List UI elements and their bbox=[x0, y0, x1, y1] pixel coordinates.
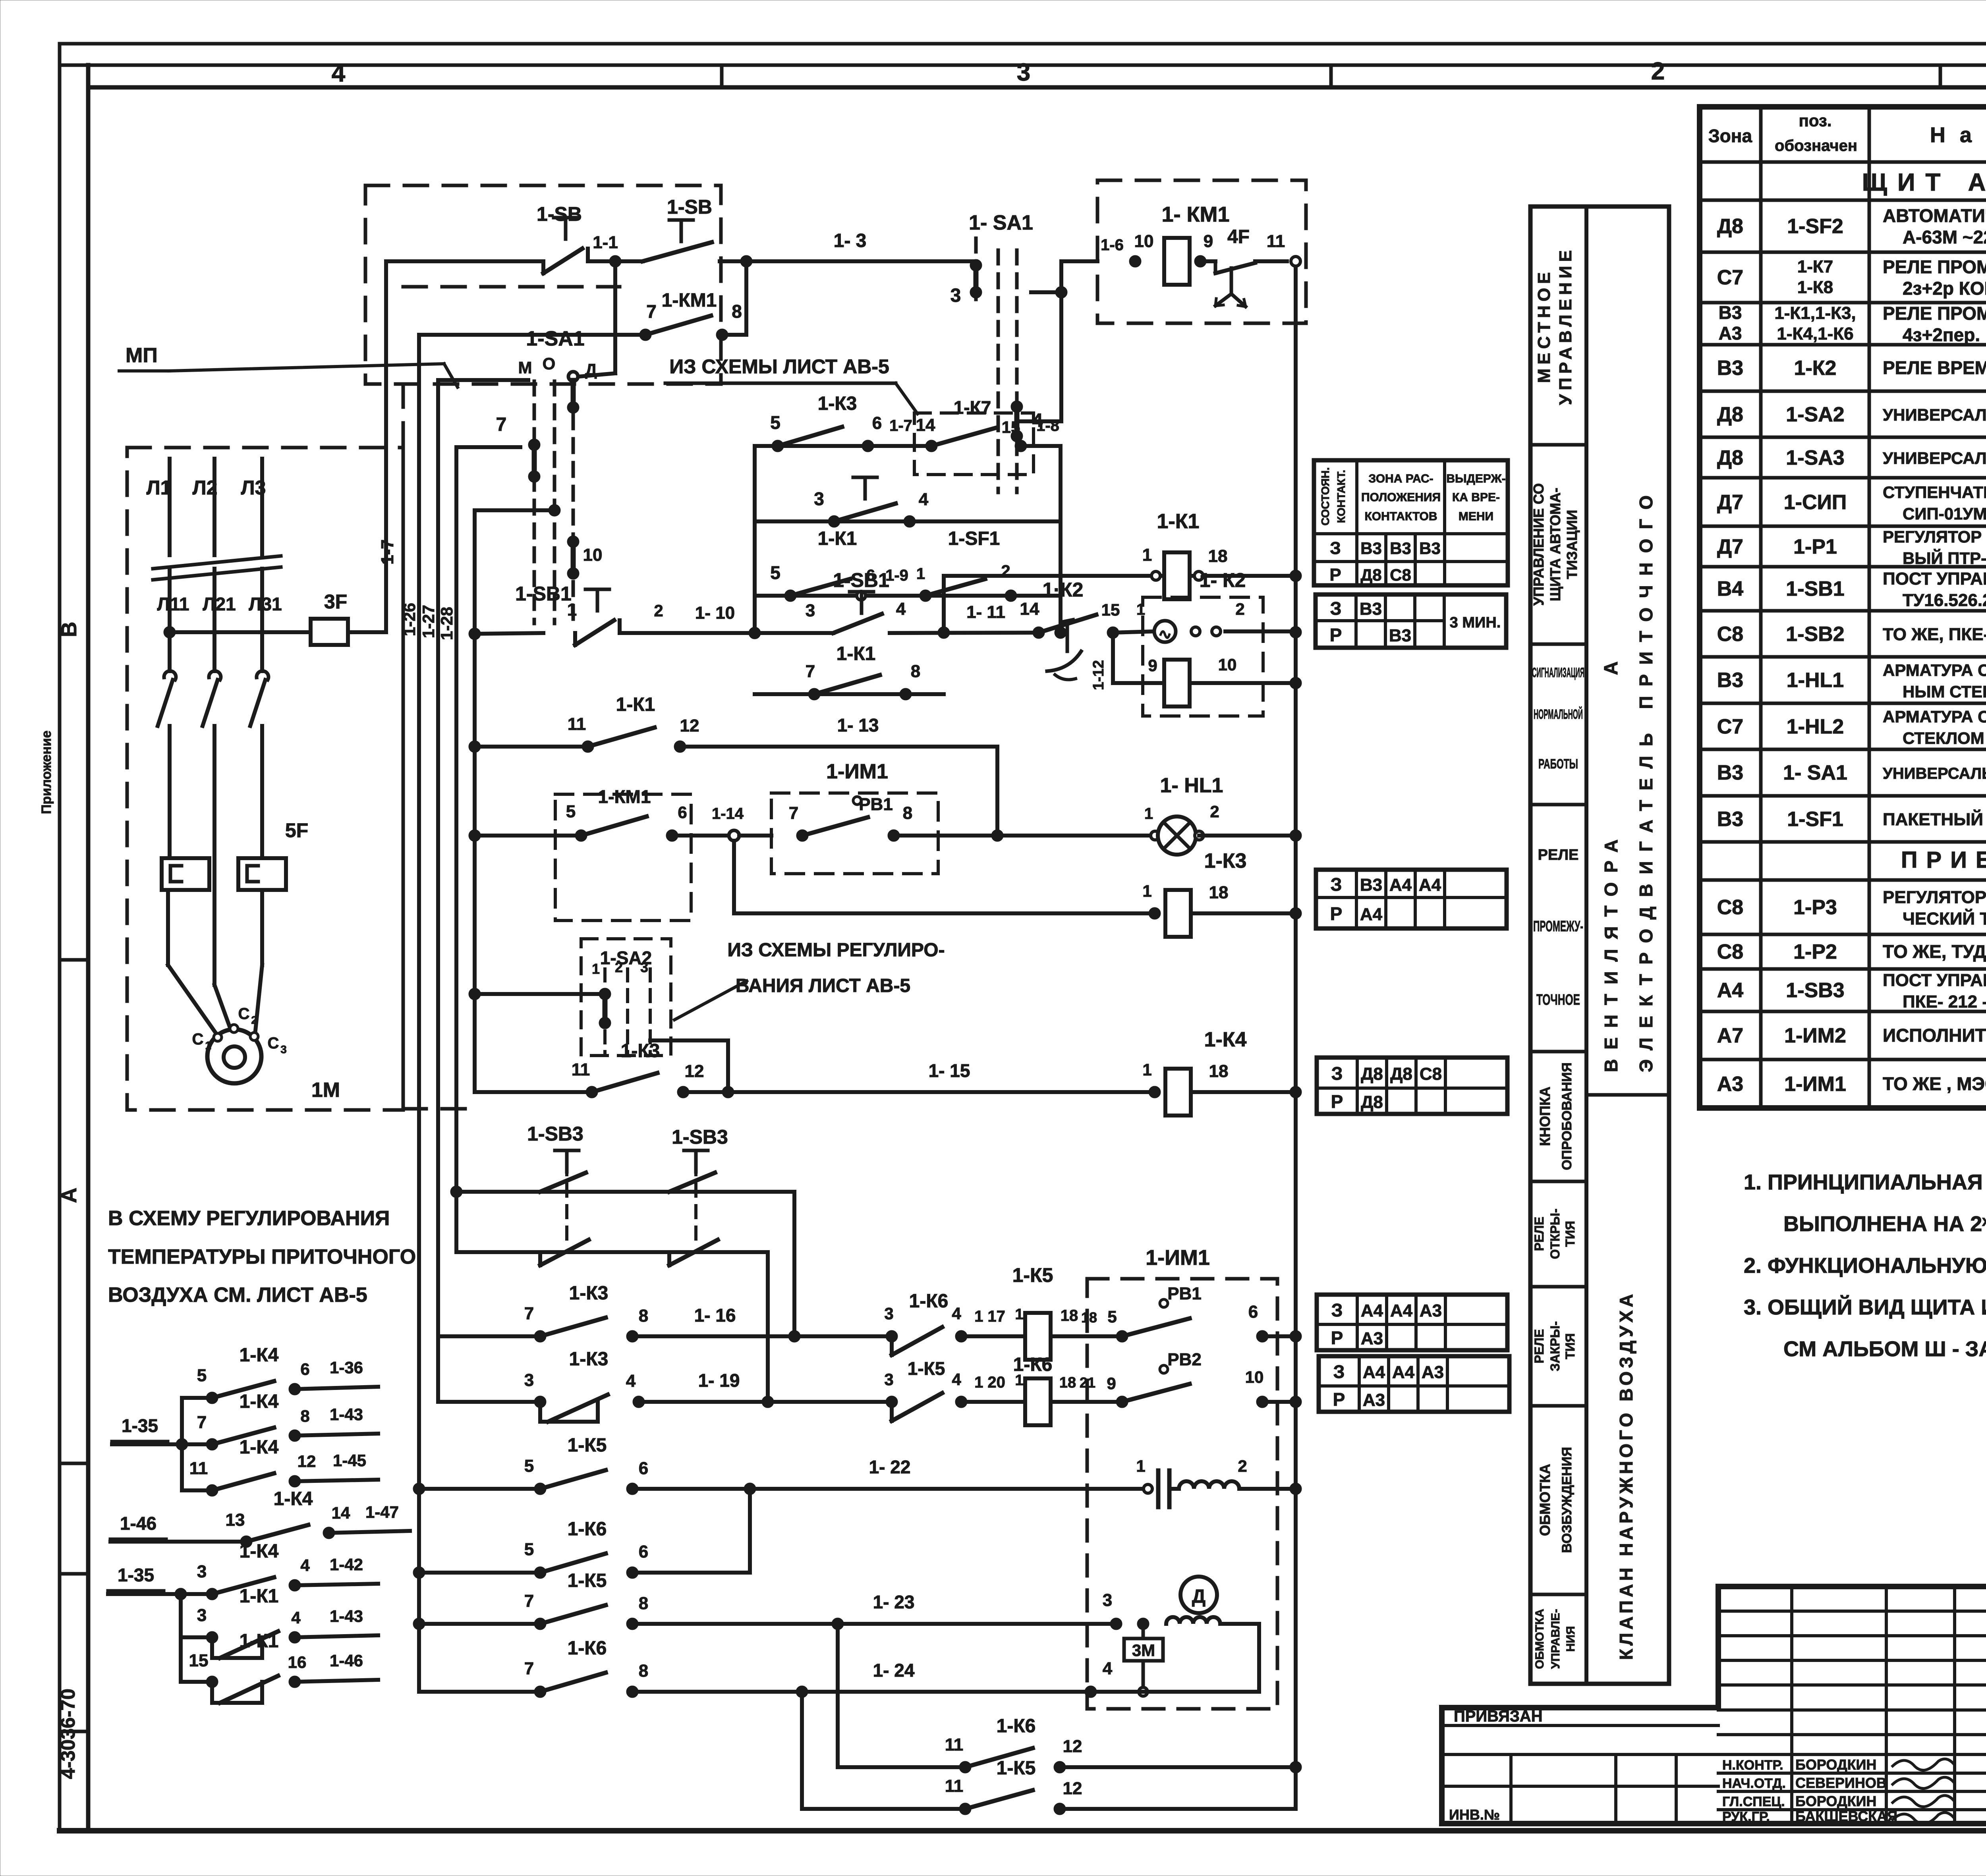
contact state table К6 bbox=[1319, 1356, 1509, 1412]
svg-text:ЧЕСКИЙ ТУДЭ-4 0-250°С: ЧЕСКИЙ ТУДЭ-4 0-250°С bbox=[1903, 908, 1986, 928]
svg-text:Н.КОНТР.: Н.КОНТР. bbox=[1722, 1758, 1783, 1773]
svg-text:С8: С8 bbox=[1717, 896, 1743, 919]
left control rail from SA1 bbox=[473, 510, 477, 1092]
svg-text:4: 4 bbox=[291, 1608, 301, 1627]
svg-text:Р: Р bbox=[1330, 903, 1343, 924]
svg-text:Р: Р bbox=[1331, 1091, 1343, 1112]
svg-text:1-42: 1-42 bbox=[330, 1555, 363, 1574]
table row 1-К2 bbox=[1717, 351, 1986, 387]
svg-text:7: 7 bbox=[789, 803, 798, 823]
parts table section: ЩИТ АВТОМАТИЗАЦИИ bbox=[1862, 169, 1986, 196]
svg-text:10: 10 bbox=[583, 545, 603, 565]
svg-text:1-К1: 1-К1 bbox=[240, 1631, 279, 1652]
svg-text:1-К6: 1-К6 bbox=[568, 1519, 607, 1540]
svg-text:1-К1: 1-К1 bbox=[240, 1586, 279, 1607]
contact 1-К1 7-8 seal bbox=[755, 643, 944, 700]
svg-text:7: 7 bbox=[197, 1413, 207, 1432]
relay coil 1-К3 bbox=[1142, 849, 1302, 937]
svg-text:1-SB3: 1-SB3 bbox=[1786, 979, 1844, 1002]
wire L1 phase bbox=[147, 459, 189, 671]
svg-text:ЗАКРЫ-: ЗАКРЫ- bbox=[1548, 1321, 1562, 1371]
svg-text:4: 4 bbox=[952, 1370, 961, 1389]
svg-text:ТЕМПЕРАТУРЫ ПРИТОЧНОГО: ТЕМПЕРАТУРЫ ПРИТОЧНОГО bbox=[108, 1245, 416, 1268]
svg-text:В3: В3 bbox=[1717, 808, 1743, 831]
svg-text:1-SA1: 1-SA1 bbox=[526, 327, 584, 350]
svg-text:1- 15: 1- 15 bbox=[929, 1060, 970, 1081]
svg-text:РВ1: РВ1 bbox=[1167, 1284, 1202, 1303]
svg-text:1- SA1: 1- SA1 bbox=[1783, 761, 1847, 784]
svg-text:1-К3: 1-К3 bbox=[818, 393, 857, 414]
svg-text:1-К3: 1-К3 bbox=[621, 1040, 660, 1062]
svg-text:1 17: 1 17 bbox=[974, 1308, 1005, 1325]
thermal release 4F bbox=[1200, 226, 1287, 307]
svg-text:18: 18 bbox=[1081, 1309, 1097, 1326]
time contact 1-К2 14-15 bbox=[1020, 579, 1120, 679]
label box РЕЛЕ ОТКРЫТИЯ bbox=[1530, 1208, 1586, 1287]
svg-text:С7: С7 bbox=[1717, 715, 1743, 738]
svg-text:РВ1: РВ1 bbox=[859, 795, 893, 814]
contact 1-К3 7-8 bbox=[438, 1283, 648, 1342]
svg-text:2: 2 bbox=[1210, 802, 1219, 821]
svg-text:1-35: 1-35 bbox=[118, 1565, 154, 1585]
svg-text:1: 1 bbox=[1015, 1306, 1023, 1323]
wire 1-15 bbox=[683, 1060, 1155, 1098]
svg-text:9: 9 bbox=[1107, 1374, 1116, 1393]
svg-text:ОПРОБОВАНИЯ: ОПРОБОВАНИЯ bbox=[1559, 1062, 1575, 1170]
svg-text:11: 11 bbox=[945, 1735, 964, 1754]
svg-text:1-27: 1-27 bbox=[419, 605, 438, 638]
svg-text:13: 13 bbox=[226, 1510, 245, 1530]
svg-text:Д8: Д8 bbox=[1390, 1064, 1412, 1084]
pushbutton 1-SB stop (NC) bbox=[537, 203, 588, 273]
svg-text:ВАНИЯ ЛИСТ АВ-5: ВАНИЯ ЛИСТ АВ-5 bbox=[736, 975, 910, 996]
svg-text:1: 1 bbox=[1136, 601, 1145, 618]
wire rung A left bbox=[386, 259, 540, 263]
svg-text:Д8: Д8 bbox=[1361, 1092, 1383, 1112]
svg-text:ТО ЖЕ, ТУДЭ-1-30°- +40°С: ТО ЖЕ, ТУДЭ-1-30°- +40°С bbox=[1883, 941, 1986, 962]
svg-text:В3: В3 bbox=[1717, 669, 1743, 692]
svg-text:1-45: 1-45 bbox=[333, 1451, 366, 1470]
contact 1-К4 7-8 wires 1-35 1-43 bbox=[112, 1391, 378, 1450]
wires 5F to motor bbox=[168, 858, 262, 1036]
svg-text:5: 5 bbox=[770, 412, 780, 433]
title block outline bbox=[1442, 1586, 1986, 1824]
svg-text:11: 11 bbox=[1267, 232, 1285, 251]
contact 1-К1 15-16 wire 1-46 bbox=[181, 1631, 378, 1703]
svg-text:ТО ЖЕ , МЭО - 4/63: ТО ЖЕ , МЭО - 4/63 bbox=[1883, 1073, 1986, 1094]
wire SA2 exit bbox=[650, 1040, 728, 1092]
svg-text:18: 18 bbox=[1208, 546, 1228, 566]
label box КЛАПАН НАРУЖНОГО ВОЗДУХА bbox=[1616, 1291, 1636, 1660]
table row 1-SF1 bbox=[1717, 803, 1986, 838]
svg-text:ЩИТ АВТОМАТИЗАЦИИ: ЩИТ АВТОМАТИЗАЦИИ bbox=[1862, 169, 1986, 196]
svg-text:А4: А4 bbox=[1363, 1363, 1385, 1382]
contact 1-К1 3-4 wire 1-43 bbox=[181, 1586, 378, 1658]
wire 1-23 bbox=[632, 1592, 1116, 1630]
field winding bbox=[1103, 1590, 1259, 1692]
svg-text:Л11: Л11 bbox=[157, 594, 189, 614]
svg-text:1-ИМ2: 1-ИМ2 bbox=[1784, 1024, 1846, 1047]
wire 1-28 stub bbox=[456, 445, 520, 449]
svg-text:3: 3 bbox=[524, 1370, 534, 1390]
contact 1-К6 5-6 bbox=[413, 1489, 750, 1579]
wire rung D from rail bbox=[469, 830, 581, 841]
svg-text:КА ВРЕ-: КА ВРЕ- bbox=[1452, 491, 1500, 504]
svg-text:7: 7 bbox=[524, 1304, 534, 1323]
svg-text:РЕЛЕ ПРОМЕЖУТОЧНОЕ ~220В: РЕЛЕ ПРОМЕЖУТОЧНОЕ ~220В bbox=[1883, 303, 1986, 324]
svg-text:8: 8 bbox=[911, 662, 920, 681]
svg-text:КНОПКА: КНОПКА bbox=[1537, 1087, 1553, 1146]
svg-text:МЕСТНОЕ: МЕСТНОЕ bbox=[1534, 268, 1554, 383]
svg-text:1-К4: 1-К4 bbox=[240, 1345, 279, 1366]
cluster right vertical bbox=[1055, 446, 1066, 639]
table row 1-HL2 bbox=[1717, 707, 1986, 747]
svg-text:Д8: Д8 bbox=[1717, 215, 1743, 238]
wire 1-28 vertical bbox=[437, 447, 456, 1252]
zone ruler ticks and numbers bbox=[332, 57, 1986, 87]
relay coil 1-К5 bbox=[1012, 1264, 1122, 1360]
relay coil 1-К6 bbox=[1013, 1354, 1122, 1425]
label box ЭЛЕКТРОДВИГАТЕЛЬ ПРИТОЧНОГО ВЕНТИЛЯТОРА bbox=[1586, 486, 1669, 1095]
wire 1-20 bbox=[961, 1372, 1026, 1402]
svg-text:1-К1: 1-К1 bbox=[818, 528, 857, 549]
svg-text:ТОЧНОЕ: ТОЧНОЕ bbox=[1536, 992, 1580, 1008]
parts table grid bbox=[1700, 107, 1986, 1108]
contact Т 3-4 (SA3 test button) bbox=[755, 477, 1061, 527]
svg-text:14: 14 bbox=[1020, 599, 1039, 619]
svg-text:1-К5: 1-К5 bbox=[997, 1758, 1036, 1779]
svg-text:ГЛ.СПЕЦ.: ГЛ.СПЕЦ. bbox=[1722, 1794, 1785, 1809]
switch 1-SA1 МОД column bbox=[518, 327, 597, 623]
wire 1-17 bbox=[961, 1306, 1026, 1336]
svg-text:1-СИП: 1-СИП bbox=[1784, 491, 1847, 514]
actuator 1-ИМ1 enclosure bbox=[1087, 1246, 1277, 1709]
svg-text:4F: 4F bbox=[1227, 226, 1250, 247]
svg-text:1-28: 1-28 bbox=[437, 607, 456, 640]
svg-text:1-К1: 1-К1 bbox=[616, 694, 655, 715]
svg-text:С: С bbox=[268, 1035, 279, 1052]
svg-text:1·К2: 1·К2 bbox=[1043, 579, 1084, 601]
svg-text:18: 18 bbox=[1209, 883, 1229, 902]
svg-text:УПРАВЛЕНИЕ СО: УПРАВЛЕНИЕ СО bbox=[1530, 483, 1547, 606]
svg-text:ВЫПОЛНЕНА НА 2ˣ ЛИСТАХ : АВ-: ВЫПОЛНЕНА НА 2ˣ ЛИСТАХ : АВ-4 , АВ-5 bbox=[1783, 1212, 1986, 1236]
svg-text:А7: А7 bbox=[1717, 1024, 1743, 1047]
wire 1-11 bbox=[890, 602, 1039, 639]
svg-text:КОНТАКТ.: КОНТАКТ. bbox=[1335, 470, 1347, 523]
svg-text:9: 9 bbox=[1148, 656, 1157, 675]
svg-text:В3: В3 bbox=[1389, 626, 1411, 645]
svg-text:1-26: 1-26 bbox=[400, 603, 419, 636]
svg-text:В3: В3 bbox=[1390, 539, 1411, 558]
svg-text:6: 6 bbox=[678, 803, 687, 822]
svg-text:2. ФУНКЦИОНАЛЬНУЮ СХЕМУ: 2. ФУНКЦИОНАЛЬНУЮ СХЕМУ СМ. ЛИСТ АВ-3. bbox=[1744, 1254, 1986, 1278]
svg-text:РЕЛЕ: РЕЛЕ bbox=[1538, 847, 1579, 863]
pushbutton 1-SB1 start (NO) bbox=[806, 569, 906, 633]
table row 1-ИМ1 bbox=[1717, 1067, 1986, 1103]
wire 1-14 node bbox=[672, 805, 771, 841]
aux ladder left bus 2 bbox=[179, 1594, 183, 1682]
svg-text:1: 1 bbox=[916, 565, 925, 583]
svg-text:5F: 5F bbox=[285, 819, 308, 841]
svg-text:1-SB3: 1-SB3 bbox=[527, 1123, 583, 1145]
svg-text:3: 3 bbox=[280, 1043, 287, 1056]
svg-text:6: 6 bbox=[1248, 1302, 1258, 1322]
svg-text:3. ОБЩИЙ ВИД ЩИТА И СХЕМЫ: 3. ОБЩИЙ ВИД ЩИТА И СХЕМЫ СОЕДИНЕНИЙ bbox=[1744, 1295, 1986, 1319]
svg-text:А4: А4 bbox=[1361, 1301, 1383, 1320]
svg-text:ТО ЖЕ, ПКЕ-112-1УЗ ТУ16.526.: ТО ЖЕ, ПКЕ-112-1УЗ ТУ16.526.216-71 bbox=[1883, 625, 1986, 644]
wire 1-1 bbox=[588, 233, 643, 267]
terminal 11 to right rail bbox=[1267, 232, 1300, 266]
label box ОБМОТКА УПРАВЛЕНИЯ bbox=[1533, 1609, 1577, 1669]
contact 1-К5 3-4 (NC) bbox=[884, 1358, 967, 1421]
svg-text:УПРАВЛЕНИЕ: УПРАВЛЕНИЕ bbox=[1556, 246, 1575, 405]
svg-text:З: З bbox=[1331, 874, 1342, 895]
svg-text:1 20: 1 20 bbox=[974, 1374, 1005, 1391]
label box УПРАВЛЕНИЕ СО ЩИТА АВТОМАТИЗАЦИИ bbox=[1530, 483, 1586, 644]
svg-text:С8: С8 bbox=[1717, 940, 1743, 963]
svg-text:СЕВЕРИНОВ: СЕВЕРИНОВ bbox=[1795, 1775, 1887, 1791]
svg-text:В3: В3 bbox=[1360, 599, 1382, 619]
wire 1-26 vertical bbox=[400, 335, 419, 1692]
svg-text:3: 3 bbox=[640, 959, 648, 975]
svg-text:В: В bbox=[57, 622, 81, 637]
svg-text:5: 5 bbox=[197, 1366, 207, 1385]
svg-text:СТУПЕНЧАТЫЙ ИМПУЛЬСНЫЙ ПРЕРЫ: СТУПЕНЧАТЫЙ ИМПУЛЬСНЫЙ ПРЕРЫВАТЕЛЬ bbox=[1883, 483, 1986, 502]
svg-text:4: 4 bbox=[1103, 1659, 1113, 1678]
contact 1-К1 11-12 bbox=[469, 694, 699, 753]
svg-text:1-7: 1-7 bbox=[378, 539, 397, 565]
svg-text:НАЧ.ОТД.: НАЧ.ОТД. bbox=[1722, 1776, 1786, 1791]
svg-text:1-К4: 1-К4 bbox=[240, 1391, 279, 1412]
svg-text:Р: Р bbox=[1333, 1389, 1345, 1410]
svg-text:М: М bbox=[518, 358, 532, 377]
svg-text:3F: 3F bbox=[324, 591, 347, 613]
contact state table К3 bbox=[1316, 870, 1507, 928]
svg-text:РЕЛЕ: РЕЛЕ bbox=[1532, 1329, 1546, 1363]
wire to lamp HL1 bbox=[991, 830, 1155, 841]
svg-text:ЭЛЕКТРОДВИГАТЕЛЬ ПРИТОЧНОГО: ЭЛЕКТРОДВИГАТЕЛЬ ПРИТОЧНОГО bbox=[1636, 486, 1656, 1072]
svg-text:1-SA2: 1-SA2 bbox=[1786, 403, 1844, 426]
svg-text:4-3036-70: 4-3036-70 bbox=[57, 1689, 79, 1779]
svg-text:1-12: 1-12 bbox=[1090, 660, 1107, 690]
svg-text:НОРМАЛЬНОЙ: НОРМАЛЬНОЙ bbox=[1534, 706, 1583, 722]
svg-text:1-HL1: 1-HL1 bbox=[1787, 669, 1844, 692]
table row 1-SB2 bbox=[1717, 618, 1986, 653]
svg-text:ОТКРЫ-: ОТКРЫ- bbox=[1548, 1208, 1562, 1259]
svg-text:АРМАТУРА СИГНАЛЬНОЙ ЛАМПЫ С: АРМАТУРА СИГНАЛЬНОЙ ЛАМПЫ С КРАСНЫМ bbox=[1883, 707, 1986, 726]
svg-text:1-14: 1-14 bbox=[712, 805, 744, 822]
notes text bbox=[1744, 1170, 1986, 1361]
svg-text:ВОЗБУЖДЕНИЯ: ВОЗБУЖДЕНИЯ bbox=[1559, 1447, 1575, 1553]
contact 1-К3 3-4 (NC) bbox=[438, 1349, 645, 1422]
svg-text:1-К7: 1-К7 bbox=[1797, 257, 1833, 276]
wire L2 phase bbox=[193, 459, 236, 671]
SA1 contact М bbox=[496, 414, 540, 483]
svg-text:АВТОМАТИЧЕСКИЙ ВЫКЛЮЧАТЕЛЬ: АВТОМАТИЧЕСКИЙ ВЫКЛЮЧАТЕЛЬ bbox=[1883, 205, 1986, 226]
svg-text:6: 6 bbox=[639, 1542, 648, 1561]
svg-text:4: 4 bbox=[332, 60, 346, 87]
svg-text:В3: В3 bbox=[1717, 357, 1743, 380]
svg-text:1- 22: 1- 22 bbox=[869, 1457, 911, 1477]
svg-text:Д8: Д8 bbox=[1361, 1064, 1383, 1084]
label box МЕСТНОЕ УПРАВЛЕНИЕ bbox=[1530, 246, 1586, 445]
table row 1-СИП bbox=[1717, 483, 1986, 523]
switch 1-SA1 upper contact bbox=[950, 211, 1033, 492]
wire 1-7 vertical (fuse feed to rung A) bbox=[378, 261, 397, 632]
svg-text:1: 1 bbox=[1142, 882, 1151, 900]
svg-text:УНИВЕРСАЛЬНЫЙ ПЕРЕКЛЮЧАТЕЛЬ У: УНИВЕРСАЛЬНЫЙ ПЕРЕКЛЮЧАТЕЛЬ УП5311-С225 bbox=[1883, 405, 1986, 424]
svg-text:1-КМ1: 1-КМ1 bbox=[662, 290, 717, 311]
wire 1-16 bbox=[632, 1305, 892, 1342]
svg-text:Л1: Л1 bbox=[147, 477, 172, 499]
svg-text:1-7: 1-7 bbox=[889, 417, 912, 434]
svg-text:1-Р2: 1-Р2 bbox=[1793, 940, 1837, 963]
contact 1-К1 5-6 and 1-SF1 bbox=[755, 528, 1061, 602]
svg-text:15: 15 bbox=[189, 1651, 209, 1670]
table row 1-SB1 bbox=[1717, 566, 1986, 613]
svg-text:1-К6: 1-К6 bbox=[568, 1638, 607, 1659]
contact 1-К6 3-4 (NC) bbox=[884, 1291, 967, 1355]
svg-text:3: 3 bbox=[197, 1562, 207, 1581]
svg-text:А4: А4 bbox=[1390, 1301, 1413, 1320]
svg-text:Наименование: Наименование bbox=[1930, 123, 1986, 147]
svg-text:1-КМ1: 1-КМ1 bbox=[598, 786, 651, 807]
svg-text:УНИВЕРСАЛЬНЫЙ ПЕРЕКЛЮЧАТЕЛЬ: УНИВЕРСАЛЬНЫЙ ПЕРЕКЛЮЧАТЕЛЬ УП5313/С314 bbox=[1883, 764, 1986, 782]
svg-text:11: 11 bbox=[189, 1459, 208, 1478]
svg-text:1-К5: 1-К5 bbox=[568, 1435, 607, 1456]
svg-text:12: 12 bbox=[298, 1452, 316, 1471]
svg-text:поз.: поз. bbox=[1799, 111, 1831, 130]
svg-text:1-43: 1-43 bbox=[330, 1405, 363, 1424]
svg-text:2: 2 bbox=[1651, 58, 1665, 85]
svg-text:3: 3 bbox=[806, 601, 815, 620]
svg-text:2: 2 bbox=[251, 1014, 257, 1026]
svg-text:1-К3: 1-К3 bbox=[1204, 849, 1247, 872]
svg-text:18: 18 bbox=[1061, 1307, 1078, 1324]
label box КНОПКА ОПРОБОВАНИЯ bbox=[1530, 1062, 1586, 1181]
svg-text:ТИЯ: ТИЯ bbox=[1563, 1333, 1577, 1359]
svg-text:1-SF1: 1-SF1 bbox=[1787, 808, 1843, 831]
svg-text:СИГНАЛИЗАЦИЯ: СИГНАЛИЗАЦИЯ bbox=[1532, 665, 1584, 680]
svg-text:З: З bbox=[1331, 1300, 1343, 1320]
svg-text:ТИЗАЦИИ: ТИЗАЦИИ bbox=[1564, 510, 1580, 579]
svg-text:1-К4: 1-К4 bbox=[1204, 1028, 1247, 1051]
pushbutton 1-SB3 pair (NC row) bbox=[456, 1163, 768, 1402]
svg-text:1-К7: 1-К7 bbox=[954, 397, 991, 418]
svg-text:3: 3 bbox=[884, 1370, 893, 1389]
relay coil 1-К2 9-10 bbox=[1113, 655, 1302, 706]
svg-text:НЫМ СТЕКЛОМ АС-220 ~22: НЫМ СТЕКЛОМ АС-220 ~220В bbox=[1903, 682, 1986, 701]
svg-text:10: 10 bbox=[1218, 655, 1237, 674]
svg-text:1-К8: 1-К8 bbox=[1797, 278, 1833, 297]
svg-text:1-43: 1-43 bbox=[330, 1607, 363, 1625]
svg-text:Д8: Д8 bbox=[1360, 566, 1381, 584]
svg-text:А4: А4 bbox=[1419, 875, 1441, 895]
svg-text:З: З bbox=[1330, 598, 1342, 619]
wire rung A tap to SA1-Д bbox=[580, 261, 615, 376]
svg-text:1-К3: 1-К3 bbox=[569, 1283, 609, 1304]
svg-text:1-SB: 1-SB bbox=[667, 196, 712, 218]
svg-text:1-К2: 1-К2 bbox=[1794, 357, 1837, 380]
svg-text:С7: С7 bbox=[1717, 266, 1743, 289]
svg-text:14: 14 bbox=[332, 1504, 350, 1522]
svg-text:О: О bbox=[543, 354, 556, 373]
svg-text:1- 13: 1- 13 bbox=[837, 715, 879, 735]
svg-text:1-SB: 1-SB bbox=[537, 203, 582, 225]
wire SA1 to KM1 box bbox=[1031, 261, 1097, 421]
svg-text:1-SB3: 1-SB3 bbox=[672, 1126, 728, 1148]
svg-text:ПРИВЯЗАН: ПРИВЯЗАН bbox=[1454, 1708, 1543, 1725]
contact state table with header bbox=[1314, 460, 1508, 585]
parts table header bbox=[1708, 111, 1986, 154]
relay 1-К2 box bbox=[1143, 569, 1263, 716]
svg-text:Л31: Л31 bbox=[249, 594, 282, 614]
svg-text:Р: Р bbox=[1329, 565, 1341, 585]
svg-text:1-8: 1-8 bbox=[1036, 417, 1059, 434]
svg-text:3: 3 bbox=[1017, 59, 1030, 86]
wire 3F to control rail bbox=[348, 630, 386, 634]
svg-text:1- 24: 1- 24 bbox=[873, 1660, 915, 1681]
svg-text:УНИВЕРСАЛЬНЫЙ ПЕРЕКЛЮЧАТЕЛЬ У: УНИВЕРСАЛЬНЫЙ ПЕРЕКЛЮЧАТЕЛЬ УП5311-А225 bbox=[1883, 448, 1986, 467]
svg-text:11: 11 bbox=[945, 1776, 964, 1796]
actuator limit switch РВ2 9-10 bbox=[1107, 1350, 1302, 1408]
svg-text:А3: А3 bbox=[1719, 323, 1742, 344]
label box РЕЛЕ ЗАКРЫТИЯ bbox=[1530, 1321, 1586, 1406]
dashed enclosure motor branch bbox=[127, 448, 403, 1110]
К2 winding symbol row bbox=[1113, 600, 1302, 642]
svg-text:А3: А3 bbox=[1361, 1329, 1383, 1348]
contact 1-К7 14-15 (dashed box) bbox=[914, 397, 1061, 475]
svg-text:7: 7 bbox=[524, 1659, 534, 1678]
svg-text:4: 4 bbox=[626, 1371, 636, 1391]
svg-text:11: 11 bbox=[568, 714, 586, 734]
wire 1-27 vertical bbox=[419, 380, 438, 1402]
svg-text:3: 3 bbox=[950, 285, 961, 306]
svg-text:РЕЛЕ ПРОМЕЖУТОЧНОЕ, ~220В: РЕЛЕ ПРОМЕЖУТОЧНОЕ, ~220В bbox=[1883, 257, 1986, 277]
contact 1-К5 11-12 bbox=[802, 1692, 1296, 1815]
table row 1-SB3 bbox=[1717, 970, 1986, 1011]
svg-text:7: 7 bbox=[806, 662, 815, 681]
svg-text:1-Р1: 1-Р1 bbox=[1793, 535, 1837, 558]
contact 1-К5 5-6 bbox=[413, 1435, 648, 1495]
svg-text:ТИЯ: ТИЯ bbox=[1563, 1221, 1577, 1247]
svg-text:1-К5: 1-К5 bbox=[908, 1358, 945, 1379]
svg-text:СТЕКЛОМ АС-220 ~220В: СТЕКЛОМ АС-220 ~220В bbox=[1903, 729, 1986, 747]
svg-text:Р: Р bbox=[1330, 625, 1342, 645]
svg-text:16: 16 bbox=[288, 1653, 307, 1671]
svg-text:В3: В3 bbox=[1360, 875, 1382, 895]
wire to fuse 3F bbox=[170, 630, 311, 634]
svg-text:СИП-01УМ: СИП-01УМ bbox=[1903, 504, 1986, 523]
svg-text:ОБМОТКА: ОБМОТКА bbox=[1537, 1464, 1553, 1536]
svg-text:1-SA3: 1-SA3 bbox=[1786, 446, 1844, 469]
circuit breaker bar bbox=[153, 556, 281, 580]
svg-text:1- HL1: 1- HL1 bbox=[1160, 774, 1223, 797]
wire rung B from rail bbox=[469, 600, 577, 640]
label box РЕЛЕ ПРОМЕЖУТОЧНОЕ bbox=[1530, 847, 1586, 1052]
svg-text:РЕЛЕ ВРЕМЕНИ ВС-10-33: РЕЛЕ ВРЕМЕНИ ВС-10-33 bbox=[1883, 357, 1986, 378]
contactor main contacts КМ1 bbox=[158, 671, 269, 858]
svg-text:С8: С8 bbox=[1717, 623, 1743, 646]
note В СХЕМУ РЕГУЛИРОВАНИЯ bbox=[108, 1207, 416, 1307]
contact 1-К6 11-12 bbox=[838, 1624, 1302, 1773]
svg-text:4: 4 bbox=[300, 1556, 310, 1575]
svg-text:12: 12 bbox=[685, 1062, 704, 1081]
svg-text:3: 3 bbox=[884, 1304, 893, 1323]
contact state table К5 bbox=[1317, 1295, 1507, 1350]
svg-text:ИНВ.№: ИНВ.№ bbox=[1449, 1807, 1500, 1823]
svg-text:1- 3: 1- 3 bbox=[834, 230, 867, 251]
